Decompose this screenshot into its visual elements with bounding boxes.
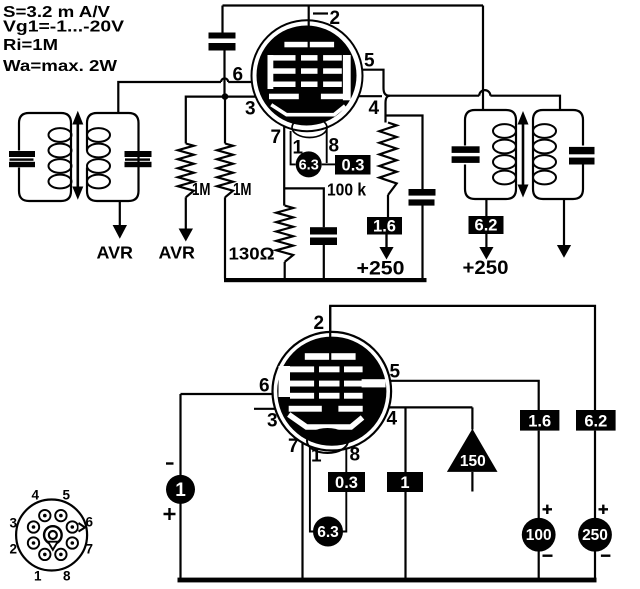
svg-text:+250: +250 — [463, 257, 509, 279]
svg-text:0.3: 0.3 — [335, 474, 358, 492]
svg-text:1M: 1M — [192, 179, 211, 199]
svg-text:1: 1 — [311, 446, 322, 467]
svg-text:2: 2 — [314, 313, 325, 334]
svg-text:6.2: 6.2 — [584, 413, 607, 431]
svg-text:6.3: 6.3 — [317, 524, 339, 541]
svg-text:7: 7 — [288, 436, 299, 457]
svg-text:+250: +250 — [357, 258, 405, 280]
svg-text:3: 3 — [245, 99, 256, 120]
svg-text:130Ω: 130Ω — [229, 244, 275, 264]
svg-text:2: 2 — [10, 542, 18, 557]
svg-text:1: 1 — [34, 569, 42, 584]
svg-text:100: 100 — [526, 527, 552, 544]
svg-text:6: 6 — [86, 515, 94, 530]
svg-text:2: 2 — [330, 8, 341, 29]
svg-text:8: 8 — [63, 569, 71, 584]
svg-text:1M: 1M — [233, 179, 252, 199]
svg-text:0.3: 0.3 — [342, 157, 365, 175]
svg-text:6: 6 — [259, 376, 270, 397]
svg-text:4: 4 — [387, 409, 398, 430]
svg-text:6: 6 — [233, 65, 244, 86]
svg-text:6.2: 6.2 — [475, 217, 498, 235]
svg-text:5: 5 — [63, 488, 71, 503]
svg-text:3: 3 — [267, 411, 278, 432]
svg-text:1: 1 — [175, 480, 186, 501]
svg-text:4: 4 — [369, 98, 380, 119]
svg-text:3: 3 — [10, 516, 18, 531]
svg-text:8: 8 — [329, 136, 340, 157]
svg-text:6.3: 6.3 — [299, 158, 319, 174]
svg-text:1.6: 1.6 — [528, 413, 551, 431]
svg-text:100 k: 100 k — [327, 180, 366, 200]
svg-text:1.6: 1.6 — [373, 218, 396, 236]
svg-text:8: 8 — [350, 445, 361, 466]
svg-text:1: 1 — [293, 138, 304, 159]
svg-text:5: 5 — [390, 362, 401, 383]
svg-text:7: 7 — [271, 127, 282, 148]
svg-text:5: 5 — [364, 51, 375, 72]
svg-text:AVR: AVR — [97, 243, 134, 263]
svg-text:Ri=1M: Ri=1M — [3, 37, 58, 54]
svg-text:Wa=max. 2W: Wa=max. 2W — [3, 58, 118, 75]
svg-text:4: 4 — [32, 488, 40, 503]
svg-text:1: 1 — [400, 474, 409, 492]
svg-text:150: 150 — [460, 453, 486, 470]
svg-text:250: 250 — [582, 527, 608, 544]
svg-text:AVR: AVR — [159, 243, 196, 263]
svg-text:Vg1=-1...-20V: Vg1=-1...-20V — [3, 19, 124, 36]
svg-text:7: 7 — [86, 542, 94, 557]
